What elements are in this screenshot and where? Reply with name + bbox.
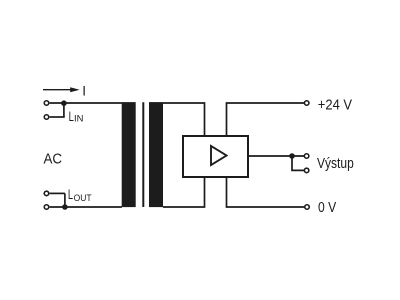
wire: rectifier top to +24 V terminal	[227, 103, 305, 136]
node junction L_OUT	[62, 204, 68, 210]
transformer core line	[142, 102, 144, 207]
svg-text:AC: AC	[44, 152, 63, 168]
rectifier triangle symbol	[211, 146, 227, 165]
svg-text:L: L	[68, 186, 73, 202]
node junction L_IN	[61, 100, 67, 106]
transformer T1 primary winding bar	[122, 102, 136, 207]
current arrow I	[43, 87, 80, 92]
wire: top input to transformer	[50, 102, 122, 104]
terminal L_OUT lower (on wire)	[44, 205, 49, 210]
wire: rectifier output to Výstup	[248, 155, 304, 157]
wire: bottom input to transformer	[50, 206, 122, 208]
terminal +24 V	[304, 101, 309, 106]
svg-text:OUT: OUT	[74, 193, 92, 204]
transformer T1 secondary winding bar	[149, 102, 163, 207]
svg-text:Výstup: Výstup	[317, 156, 354, 172]
wire: branch down to bottom wire	[64, 193, 66, 207]
svg-text:I: I	[82, 83, 86, 98]
svg-text:+24 V: +24 V	[318, 97, 353, 113]
svg-text:0 V: 0 V	[318, 200, 337, 216]
wire: junction down	[63, 103, 65, 117]
wire: secondary top to rectifier	[163, 103, 205, 136]
wire: upper terminal to branch	[50, 192, 65, 194]
rectifier U1 box	[183, 136, 248, 177]
terminal L top (on wire)	[44, 101, 49, 106]
node junction output	[289, 153, 295, 159]
terminal L_OUT upper	[44, 191, 49, 196]
terminal 0 V	[305, 205, 310, 210]
svg-text:IN: IN	[74, 114, 84, 125]
terminal Výstup upper	[304, 154, 309, 159]
wire: secondary bottom to rectifier	[163, 177, 205, 207]
wire: rectifier bottom to 0 V terminal	[227, 177, 305, 207]
terminal L_IN second	[44, 115, 49, 120]
wire: second terminal to junction branch	[50, 116, 65, 118]
wire: output branch down	[292, 156, 304, 170]
terminal Výstup lower	[304, 168, 309, 173]
